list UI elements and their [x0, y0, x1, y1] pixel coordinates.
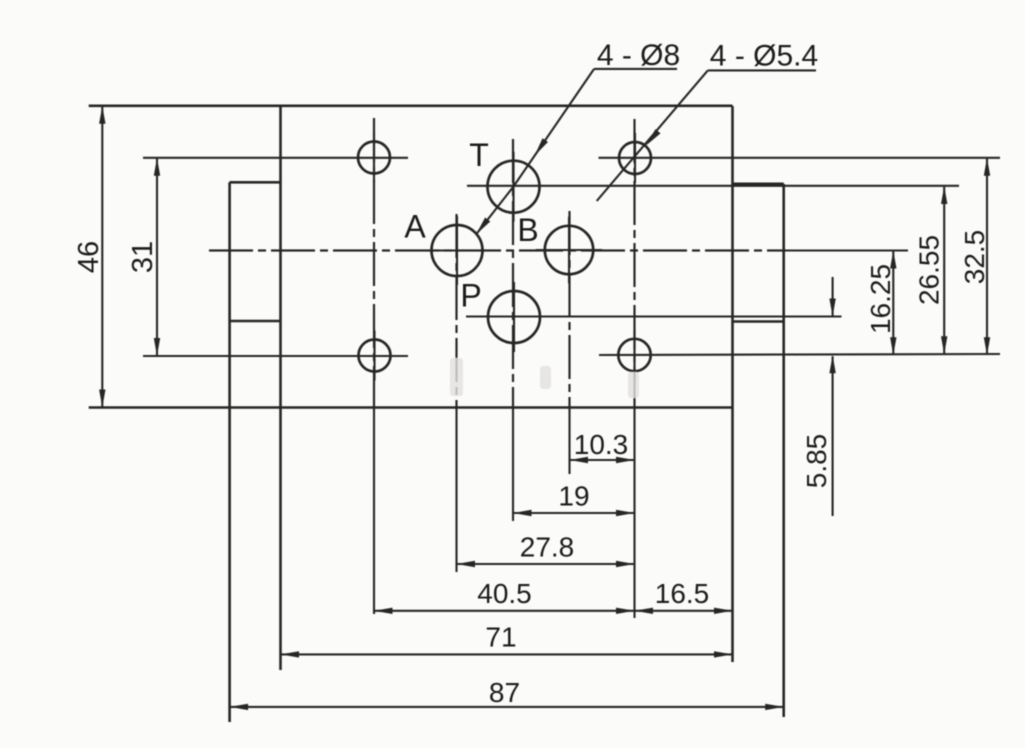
- mounting hole top-right Ø5.4: [619, 142, 651, 174]
- vertical centerline left hole column dashed part: [373, 118, 375, 408]
- leader 4-Ø8 arrow at T: [535, 138, 548, 156]
- leader 4-Ø8 arrow at A: [476, 217, 490, 234]
- crosshair horizontal of port hole B: [536, 249, 602, 251]
- dimension 26.55 arrow bottom: [941, 336, 947, 354]
- dimension 16.5 line: [635, 610, 733, 612]
- right ear top edge: [733, 183, 784, 186]
- dimension 10.3 arrow left: [570, 457, 589, 463]
- svg-text:40.5: 40.5: [477, 578, 532, 609]
- dimension 46 arrow bottom: [99, 390, 105, 408]
- svg-text:71: 71: [485, 622, 516, 653]
- dimension 40.5 arrow left: [374, 608, 393, 614]
- svg-text:87: 87: [489, 677, 520, 708]
- crosshair vertical of mounting hole bottom-left Ø5.4: [373, 331, 375, 381]
- P hole line / 5.85 extension: [466, 315, 842, 317]
- top hole row line right / 32.5 extension: [599, 157, 1001, 159]
- vertical centerline left hole column solid extension: [373, 408, 375, 615]
- dimension 32.5 arrow top: [984, 158, 990, 176]
- vertical centerline right hole column solid extension: [633, 408, 635, 619]
- svg-text:10.3: 10.3: [574, 429, 629, 460]
- dimension 19 arrow left: [513, 510, 532, 516]
- dimension 27.8 arrow left: [457, 561, 476, 567]
- leader 4-Ø5.4 arrow: [646, 129, 661, 146]
- left ear outer edge / 87 extension: [228, 182, 231, 722]
- crosshair vertical of port hole P Ø8: [513, 282, 515, 352]
- port hole A Ø8: [432, 225, 483, 276]
- svg-text:26.55: 26.55: [914, 235, 945, 305]
- horizontal main centerline solid tail / 16.25 extension: [786, 249, 908, 251]
- dimension 26.55 line: [943, 187, 945, 354]
- dimension 19 arrow right: [616, 510, 635, 516]
- dimension 32.5 arrow bottom: [984, 337, 990, 355]
- svg-text:4 - Ø5.4: 4 - Ø5.4: [710, 40, 818, 73]
- vertical centerline B column solid extension: [568, 408, 570, 475]
- dimension 16.5 arrow right: [714, 608, 733, 614]
- svg-text:31: 31: [127, 241, 159, 273]
- vertical centerline B column dashed part: [568, 211, 570, 408]
- dimension 19 line: [513, 512, 635, 514]
- vertical centerline T-P column dashed part: [512, 139, 514, 408]
- right ear outer edge / 87 extension: [782, 184, 785, 717]
- crosshair horizontal of port hole A: [423, 249, 492, 251]
- vertical centerline right hole column dashed part: [633, 119, 635, 408]
- plate top edge: [89, 105, 733, 108]
- leader 4-Ø8 underline: [594, 68, 677, 70]
- port hole T Ø8: [488, 161, 540, 213]
- svg-text:27.8: 27.8: [520, 532, 575, 563]
- dimension 46 line: [101, 107, 103, 407]
- dimension 87 arrow right: [765, 704, 784, 710]
- dimension 87 line: [230, 706, 784, 708]
- dimension 16.25 arrow bottom: [890, 337, 896, 355]
- leader 4-Ø5.4 line: [597, 70, 708, 201]
- left ear top edge: [230, 181, 281, 184]
- vertical centerline T-P column solid extension: [512, 408, 514, 522]
- dimension 5.85 line lower: [832, 356, 834, 516]
- T hole line / 26.55 extension: [467, 185, 959, 187]
- plate left edge / 71 extension: [279, 106, 282, 670]
- dimension 27.8 arrow right: [616, 561, 635, 567]
- dimension 32.5 line: [986, 159, 988, 355]
- svg-text:5.85: 5.85: [801, 434, 832, 489]
- mounting hole bottom-right Ø5.4: [618, 339, 650, 371]
- dimension 31 arrow bottom: [154, 338, 160, 356]
- vertical centerline A column solid extension: [455, 408, 457, 573]
- crosshair vertical of mounting hole top-right Ø5.4: [634, 133, 636, 183]
- dimension 26.55 arrow top: [941, 186, 947, 204]
- mounting hole top-left Ø5.4: [358, 142, 390, 174]
- dimension 71 line: [281, 653, 733, 655]
- dimension 71 arrow left: [281, 651, 300, 657]
- bottom hole row line right / dims extension: [599, 354, 1000, 355]
- top hole row line left: [143, 157, 408, 159]
- dimension 31 line: [156, 159, 158, 356]
- dimension 10.3 line: [570, 459, 635, 461]
- faint watermark: [450, 358, 639, 398]
- plate right edge / 71 extension: [731, 106, 734, 662]
- svg-text:A: A: [404, 209, 426, 245]
- svg-text:19: 19: [558, 481, 589, 512]
- plate bottom edge: [89, 406, 733, 409]
- right ear bottom edge: [733, 320, 784, 323]
- crosshair vertical of mounting hole top-left Ø5.4: [373, 133, 375, 183]
- left ear bottom edge: [230, 320, 281, 323]
- crosshair vertical of port hole T Ø8: [512, 152, 514, 222]
- dimension 16.25 line: [892, 251, 894, 354]
- dimension 5.85 line upper: [832, 277, 834, 316]
- dimension 40.5 line: [374, 610, 635, 612]
- svg-text:T: T: [469, 137, 489, 173]
- vertical centerline A column dashed part: [455, 214, 457, 408]
- svg-text:32.5: 32.5: [959, 230, 990, 285]
- dimension 71 arrow right: [714, 651, 733, 657]
- svg-text:P: P: [460, 278, 481, 314]
- dimension 5.85 arrow lower: [829, 355, 835, 373]
- dimension 46 arrow top: [99, 106, 105, 124]
- svg-text:16.5: 16.5: [655, 578, 710, 609]
- dimension 40.5 arrow right: [616, 608, 635, 614]
- dimension 5.85 arrow upper: [829, 299, 835, 317]
- crosshair vertical of port hole B Ø8: [568, 217, 570, 283]
- svg-text:16.25: 16.25: [865, 264, 896, 334]
- leader 4-Ø8 line: [476, 69, 594, 235]
- port hole P Ø8: [488, 291, 540, 343]
- dimension 87 arrow left: [230, 704, 249, 710]
- dimension 31 arrow top: [154, 158, 160, 176]
- crosshair vertical of port hole A Ø8: [456, 216, 458, 285]
- bottom hole row line left: [143, 355, 408, 357]
- dimension 16.5 arrow left: [635, 608, 654, 614]
- horizontal main centerline dashed part: [209, 249, 786, 251]
- port hole B Ø8: [545, 226, 593, 274]
- dimension 27.8 line: [457, 563, 635, 565]
- mounting hole bottom-left Ø5.4: [359, 340, 391, 372]
- dimension 16.25 arrow top: [890, 251, 896, 269]
- svg-text:46: 46: [73, 241, 105, 273]
- leader 4-Ø5.4 underline: [708, 69, 816, 71]
- svg-text:B: B: [517, 212, 538, 248]
- crosshair vertical of mounting hole bottom-right Ø5.4: [633, 330, 635, 380]
- svg-text:4 - Ø8: 4 - Ø8: [597, 39, 680, 72]
- dimension 10.3 arrow right: [616, 457, 635, 463]
